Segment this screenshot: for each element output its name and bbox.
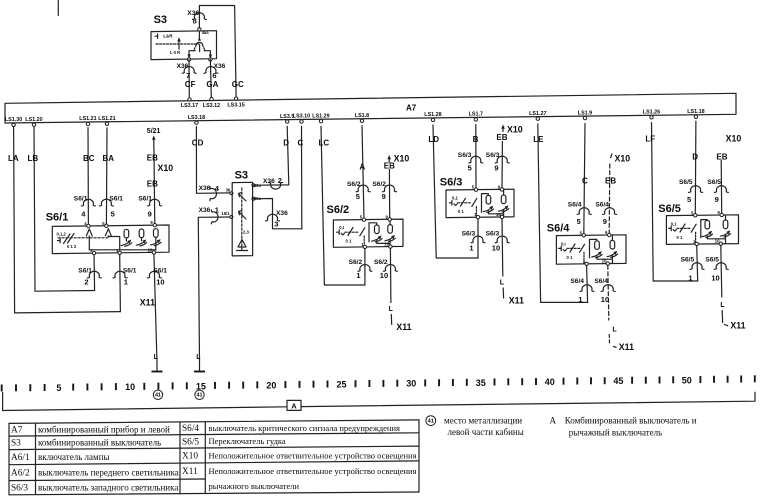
wire label C (S6/4) [582, 177, 588, 186]
S6/3 pin 10 node [496, 212, 504, 219]
svg-text:X11: X11 [182, 467, 198, 477]
wire S6/5 pin10 down [721, 245, 722, 297]
connector X36 pin 2 [263, 176, 283, 189]
wire label L (S6/3) [500, 280, 505, 287]
S6/4 pin 10 node [602, 259, 610, 266]
svg-text:B: B [473, 135, 479, 144]
S6/5 pin 1 node [693, 239, 698, 246]
wire label GC [232, 80, 244, 89]
connector S6/1 pin 2 [78, 268, 101, 287]
svg-text:GA: GA [206, 80, 218, 89]
svg-text:LD: LD [428, 135, 439, 144]
svg-text:45: 45 [613, 376, 623, 386]
svg-text:А: А [550, 416, 557, 426]
connector S6/5 pin 5 [679, 179, 703, 204]
svg-text:9: 9 [603, 217, 607, 226]
svg-text:LS1.28: LS1.28 [424, 112, 441, 118]
warning signal switch S6/4 label [547, 223, 571, 235]
svg-text:LS3.12: LS3.12 [203, 103, 220, 109]
S6/4 pin 1 node [583, 259, 588, 266]
wire LA from LS1.30 to S6/1 pin1 [14, 127, 121, 313]
svg-text:S6/2: S6/2 [372, 181, 386, 188]
svg-text:41: 41 [197, 393, 203, 399]
svg-text:40: 40 [545, 377, 555, 387]
svg-text:L 0 R: L 0 R [170, 50, 180, 55]
svg-text:10: 10 [148, 247, 153, 252]
connector X36 pin 1 [199, 205, 219, 224]
node LS1.20 [25, 117, 42, 127]
wire label EB (S6/5) [716, 153, 727, 162]
ground reference mark 41 [195, 390, 204, 399]
svg-text:L: L [612, 327, 617, 334]
wire label EB (below X10) [147, 180, 158, 189]
S3 pin 36 node [230, 192, 233, 195]
S3 pin label 15/1 [221, 211, 230, 216]
legend row A6/2 [11, 466, 417, 479]
svg-text:рычажный выключатель: рычажный выключатель [569, 427, 663, 437]
S6/2 pin 1 node [361, 242, 366, 249]
svg-text:EB: EB [716, 153, 727, 162]
wire label EB (S6/3) [496, 133, 507, 142]
svg-text:S6/1: S6/1 [123, 268, 137, 275]
S6/2 pin 10 node [384, 242, 392, 249]
wire label LF [645, 135, 655, 144]
svg-text:X11: X11 [509, 296, 524, 306]
svg-text:S6/4: S6/4 [570, 278, 584, 285]
svg-text:S6/5: S6/5 [658, 203, 681, 215]
S6/4 pin 9 node [605, 230, 611, 237]
harness bracket A [3, 392, 755, 410]
svg-text:S6/3: S6/3 [486, 152, 500, 159]
wire label BA [103, 154, 115, 163]
S6/5 internals [669, 215, 731, 244]
svg-text:0 1 2: 0 1 2 [67, 244, 77, 249]
S6/1 pin 10 node [148, 247, 156, 254]
svg-text:50: 50 [682, 375, 692, 385]
wire B from LS1.7 to S6/3 pin5 [475, 125, 477, 190]
wire label L (S6/1) [154, 354, 159, 361]
svg-text:15/1: 15/1 [221, 211, 230, 216]
svg-text:1: 1 [215, 205, 219, 214]
wire label LC [319, 139, 330, 148]
svg-text:EB: EB [496, 133, 507, 142]
connector X11 label (S6/1 branch) [140, 298, 155, 308]
node LS1.7 [469, 112, 483, 122]
S6/3 internals [449, 190, 509, 217]
ground (left cab metallization) [194, 364, 205, 372]
svg-text:5: 5 [577, 217, 581, 226]
svg-text:S6/5: S6/5 [681, 256, 695, 263]
S6/2 pin 5 node [360, 215, 366, 222]
switch S6/4 body [556, 235, 626, 264]
note: bracket A explanation [550, 416, 697, 438]
svg-text:X36: X36 [199, 185, 211, 192]
svg-text:S6/3: S6/3 [462, 230, 476, 237]
legend row S3 [11, 436, 286, 449]
svg-text:4: 4 [215, 184, 220, 193]
connector S6/3 pin 1 [462, 230, 485, 252]
svg-text:S6/2: S6/2 [347, 181, 361, 188]
svg-text:S6/1: S6/1 [46, 212, 69, 224]
svg-text:X10: X10 [158, 163, 174, 173]
svg-text:LS1.26: LS1.26 [643, 110, 660, 116]
wire label EB (S6/4) [605, 177, 616, 186]
connector X11 label (S6/2 branch) [396, 322, 411, 332]
svg-text:LS1.7: LS1.7 [469, 112, 483, 118]
svg-text:1: 1 [124, 278, 128, 287]
wire label D [283, 139, 289, 148]
wire label EB (above X10) [147, 154, 158, 163]
wire LD from LS1.28 to S6/3 pin1 [433, 125, 478, 258]
node LS1.9 [578, 110, 592, 120]
wire S6/2 to X11 [390, 315, 392, 325]
connector X10 label (S6/1 branch) [158, 163, 174, 173]
svg-text:X11: X11 [140, 298, 155, 308]
svg-text:5: 5 [468, 164, 472, 173]
svg-text:X36: X36 [263, 178, 275, 185]
wire from X36-1 into S3 pin 15/1 [198, 216, 232, 218]
svg-text:S6/1: S6/1 [153, 268, 167, 275]
svg-text:41: 41 [428, 419, 434, 425]
svg-text:S6/5: S6/5 [705, 256, 719, 263]
horn switch S6/5 label [658, 203, 681, 215]
connector S6/1 pin 9 [138, 196, 161, 219]
connector S6/1 pin 1 [113, 268, 137, 287]
svg-text:C: C [582, 177, 588, 186]
wire LE from LS1.27 to S6/4 pin1 [538, 124, 588, 302]
svg-text:1: 1 [578, 295, 582, 304]
svg-text:A: A [359, 163, 365, 172]
S3 pin 45a [198, 28, 209, 35]
node LS3.5 [280, 114, 294, 124]
svg-text:S6/1: S6/1 [74, 196, 88, 203]
svg-text:Неположительное ответвительное: Неположительное ответвительное устройств… [209, 466, 417, 476]
svg-text:3: 3 [274, 220, 278, 229]
svg-text:X36: X36 [199, 207, 211, 214]
svg-text:S6/3: S6/3 [458, 152, 472, 159]
svg-text:2: 2 [84, 278, 88, 287]
svg-text:5/21: 5/21 [147, 128, 161, 135]
svg-text:D: D [692, 153, 698, 162]
svg-text:L: L [720, 302, 725, 309]
connector X10 label (S6/3 branch) [507, 125, 523, 135]
svg-text:X36: X36 [276, 210, 288, 217]
svg-text:0 1: 0 1 [567, 255, 573, 260]
svg-text:D: D [283, 139, 289, 148]
svg-text:S3: S3 [235, 170, 248, 182]
tick before X11 (S6/5) [725, 325, 728, 326]
svg-text:CD: CD [192, 139, 204, 148]
connector S6/1 pin 4 [74, 196, 96, 219]
svg-text:A7: A7 [11, 426, 23, 436]
wire S6/2 pin10 down [389, 248, 392, 302]
wire label L (S6/5) [720, 302, 725, 309]
svg-text:10: 10 [715, 239, 720, 244]
legend table [9, 420, 419, 495]
svg-text:S6/4: S6/4 [594, 278, 608, 285]
svg-text:выключатель переднего светильн: выключатель переднего светильника [38, 467, 179, 477]
wire GA from S3 to A7 LS3.12 [209, 59, 212, 97]
S6/5 pin 10 node [715, 239, 723, 246]
svg-text:2,3: 2,3 [243, 230, 249, 235]
svg-text:LS1.27: LS1.27 [529, 111, 546, 117]
svg-text:LS3.17: LS3.17 [181, 103, 198, 109]
S6/2 pin 9 node [386, 214, 392, 221]
connector X36 pin 3 [266, 210, 289, 228]
svg-text:S6/2: S6/2 [327, 204, 350, 216]
legend row S6/3 [11, 481, 300, 494]
wire GC from S3 45a to A7 LS3.15 [199, 6, 236, 97]
note: ground mark 41 explanation [426, 416, 524, 437]
svg-text:S6/3: S6/3 [440, 177, 463, 189]
wire from S3 35a via X36-3 to wire C [253, 199, 302, 229]
svg-text:35: 35 [476, 378, 486, 388]
S3 pin 15/1 node [230, 216, 233, 219]
svg-text:1: 1 [356, 271, 360, 280]
front dome lamp switch S6/2 label [327, 204, 350, 216]
svg-text:LA: LA [8, 154, 19, 163]
wire S6/5 to X11 [721, 311, 723, 323]
svg-text:CF: CF [185, 80, 196, 89]
svg-text:0,I: 0,I [339, 225, 344, 230]
switch S6/2 body [333, 219, 403, 247]
legend row A6/1 [11, 450, 417, 463]
svg-text:LF: LF [645, 135, 655, 144]
S6/1 pin 2 node [90, 248, 96, 255]
S6/1 pin 4 node [84, 221, 90, 228]
node LS3.17 [181, 98, 198, 109]
svg-text:LS3.15: LS3.15 [227, 102, 244, 108]
wire label D (S6/5) [692, 153, 698, 162]
connector S6/2 pin 10 [374, 259, 397, 280]
steering column switch S3 body [232, 182, 252, 256]
svg-text:LE: LE [533, 135, 544, 144]
svg-text:LS3.10: LS3.10 [293, 114, 310, 120]
wire EB from X10 to S6/4 pin9 (dashed) [609, 154, 612, 235]
wire label A [359, 163, 365, 172]
node LS1.8 [355, 113, 369, 123]
svg-text:EB: EB [384, 162, 395, 171]
node LS1.28 [424, 112, 441, 122]
svg-text:S6/4: S6/4 [595, 201, 609, 208]
svg-text:9: 9 [494, 164, 498, 173]
wire label EB (S6/2) [384, 162, 395, 171]
svg-text:L: L [500, 280, 505, 287]
svg-text:30: 30 [406, 379, 416, 389]
svg-text:S6/3: S6/3 [486, 230, 500, 237]
svg-text:LC: LC [319, 139, 330, 148]
wire label B [473, 135, 479, 144]
S3 internal turn-signal switch [155, 31, 212, 59]
svg-text:X10: X10 [615, 154, 631, 164]
wire BA from LS1.21 to S6/1 pin5 [105, 128, 108, 226]
svg-text:X10: X10 [507, 125, 523, 135]
svg-text:выключатель критического сигна: выключатель критического сигнала предупр… [209, 423, 401, 433]
svg-text:X11: X11 [619, 342, 634, 352]
node LS3.10 [293, 114, 310, 124]
wire S6/3 pin1 down [477, 219, 479, 258]
steering column switch S3 label [235, 170, 248, 182]
svg-text:X36: X36 [214, 63, 226, 70]
connector S6/1 pin 10 [147, 268, 167, 287]
ground reference mark 41 [153, 390, 162, 399]
svg-text:A6/1: A6/1 [11, 453, 30, 463]
svg-text:10: 10 [602, 259, 607, 264]
svg-text:L: L [154, 354, 159, 361]
connector X11 label (S6/5 branch) [730, 321, 745, 331]
S3 internal contacts [237, 188, 250, 251]
wire from X36-1 down to ground [198, 217, 199, 363]
svg-text:S6/1: S6/1 [109, 196, 123, 203]
node LS1.21 [79, 116, 96, 126]
hazard switch S6/3 label [440, 177, 463, 189]
wire EB from 5/21 through X10 to S6/1 pin9 [152, 136, 156, 226]
S6/1 pin 5 node [102, 221, 108, 228]
connector S6/4 pin 10 [594, 278, 615, 304]
node LS1.29 [312, 113, 329, 123]
svg-text:10: 10 [492, 243, 500, 252]
svg-text:S6/3: S6/3 [11, 484, 28, 494]
wire label C [298, 139, 304, 148]
svg-text:10: 10 [384, 242, 389, 247]
svg-text:10: 10 [156, 278, 164, 287]
svg-text:S6/4: S6/4 [568, 201, 582, 208]
svg-text:X10: X10 [394, 154, 410, 164]
connector S6/2 pin 5 [347, 181, 370, 201]
wire label L (S6/2) [389, 306, 394, 313]
S3 pin 36a node [252, 184, 255, 187]
svg-text:L: L [389, 306, 394, 313]
node LS3.18 [188, 115, 205, 125]
svg-text:S6/4: S6/4 [182, 424, 199, 434]
svg-text:36: 36 [226, 187, 231, 192]
svg-text:комбинированный прибор и левой: комбинированный прибор и левой [38, 424, 170, 434]
svg-text:7: 7 [186, 71, 190, 80]
wire EB from X10 to S6/2 pin9 [387, 155, 391, 219]
svg-text:0,I: 0,I [561, 241, 566, 246]
connector S6/5 pin 1 [681, 256, 704, 282]
wire label CD [192, 139, 204, 148]
wire label GA [206, 80, 218, 89]
combination switch S3 body [151, 31, 217, 60]
S6/1 pin 9 node [150, 220, 156, 227]
connector S6/3 pin 10 [486, 230, 510, 252]
svg-text:LS1.20: LS1.20 [25, 117, 42, 123]
svg-text:место металлизации: место металлизации [444, 416, 522, 426]
svg-text:X10: X10 [726, 134, 742, 144]
svg-text:X36: X36 [177, 63, 189, 70]
S3 pin 7 node [187, 58, 190, 61]
S6/3 pin 1 node [474, 212, 479, 219]
wire label CF [185, 80, 196, 89]
svg-text:5: 5 [56, 383, 61, 393]
svg-text:10: 10 [496, 212, 501, 217]
wire C from LS1.9 to S6/4 pin5 [584, 124, 585, 235]
svg-text:0,1,2: 0,1,2 [57, 231, 67, 236]
svg-text:C: C [298, 139, 304, 148]
wire BC from LS1.21 to S6/1 pin4 [87, 128, 89, 226]
svg-text:LS1.21: LS1.21 [79, 116, 96, 122]
svg-text:A6/2: A6/2 [11, 469, 30, 479]
svg-text:S6/1: S6/1 [78, 268, 92, 275]
wire label L (S3) [196, 354, 201, 361]
svg-text:LS3.18: LS3.18 [188, 115, 205, 121]
svg-text:LS1.29: LS1.29 [312, 113, 329, 119]
S6/5 pin 9 node [718, 210, 724, 217]
svg-text:1: 1 [688, 273, 692, 282]
svg-text:LS1.8: LS1.8 [355, 113, 369, 119]
S6/3 pin 5 node [472, 185, 478, 192]
S6/2 internals [337, 219, 396, 246]
connector S6/4 pin 9 [595, 201, 616, 226]
node LS1.30 [5, 117, 22, 127]
svg-text:комбинированный выключатель: комбинированный выключатель [38, 438, 161, 448]
S6/1 pin 1 node [116, 248, 121, 255]
wire S6/2 pin1 down [364, 249, 366, 285]
svg-text:5: 5 [356, 192, 360, 201]
combination instrument bus A7 [5, 93, 736, 123]
wire LB from LS1.20 to S6/1 pin2 [34, 127, 95, 291]
svg-text:2: 2 [278, 176, 282, 185]
svg-text:L&R: L&R [163, 33, 173, 38]
svg-text:10: 10 [711, 273, 719, 282]
svg-text:25: 25 [336, 380, 346, 390]
wire S6/5 pin1 down [697, 246, 698, 281]
svg-text:9: 9 [382, 192, 386, 201]
wire A from LS1.8 to S6/2 pin5 [362, 126, 364, 220]
connector S6/3 pin 9 [486, 152, 509, 173]
connector S6/5 pin 9 [707, 179, 728, 204]
node LS3.15 [227, 97, 244, 108]
measuring ruler scale [2, 375, 755, 393]
svg-text:S6/2: S6/2 [374, 259, 388, 266]
legend row A7 [11, 423, 400, 436]
S6/4 internals [559, 235, 618, 263]
wire CD from LS3.18 to S3 pin36 via X36-4 [196, 127, 232, 194]
svg-text:LS1.9: LS1.9 [578, 110, 592, 116]
wire label LA [8, 154, 19, 163]
wire label L (S6/4) [612, 327, 617, 334]
connector X36 pin 6 [204, 63, 226, 80]
wire label LE [533, 135, 544, 144]
svg-text:20: 20 [266, 380, 276, 390]
connector S6/4 pin 5 [568, 201, 591, 226]
wire S6/4 pin1 down [587, 266, 588, 303]
svg-text:выключатель западного светильн: выключатель западного светильника [38, 482, 178, 492]
wire LF from LS1.26 to S6/5 pin1 [652, 123, 698, 281]
connector X11 label (S6/3 branch) [509, 296, 524, 306]
lamp switch S6/1 body [52, 225, 169, 254]
svg-text:0,1: 0,1 [452, 196, 458, 201]
lamp switch S6/1 label [46, 212, 69, 224]
connector X10 label (S6/5 branch) [726, 134, 742, 144]
wire S6/1 pin10 to ground [154, 254, 157, 363]
wire label BC [83, 154, 95, 163]
svg-text:EB: EB [147, 154, 158, 163]
S6/3 pin 9 node [498, 184, 504, 191]
wire S6/4 to X11 [608, 335, 610, 345]
svg-text:1: 1 [469, 243, 473, 252]
svg-text:S6/5: S6/5 [679, 179, 693, 186]
svg-text:9: 9 [715, 195, 719, 204]
svg-text:X11: X11 [730, 321, 745, 331]
svg-text:LS1.18: LS1.18 [687, 109, 704, 115]
wire LC from LS1.29 to S6/2 pin1 [321, 126, 365, 285]
svg-text:X10: X10 [182, 452, 198, 462]
ground (left cab metallization) [152, 364, 163, 372]
connector X36 pin 7 [177, 63, 197, 80]
wire label LD [428, 135, 439, 144]
